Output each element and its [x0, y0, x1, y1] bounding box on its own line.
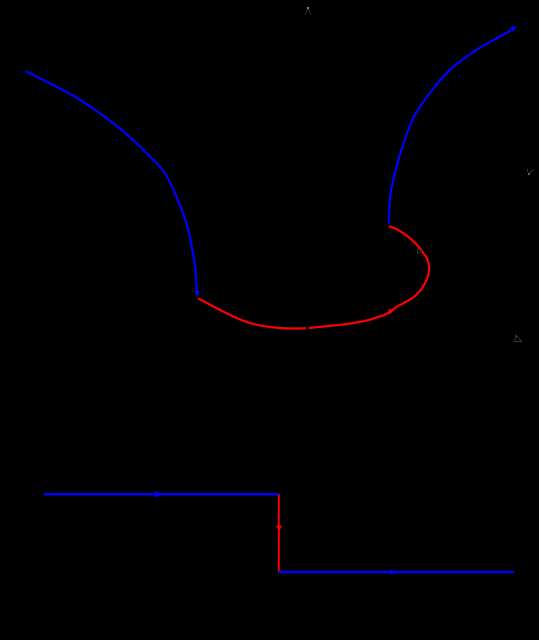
arrowhead blue right on upper level	[155, 491, 162, 498]
wire upper-left stable branch (blue curve)	[25, 71, 197, 292]
arrowhead blue up-right at end of right branch	[510, 26, 517, 32]
hidden arrow marker on fold branch (faint)	[418, 248, 422, 253]
hidden y-axis arrowhead (faint)	[305, 8, 311, 15]
wire lower plot upper level (blue line)	[44, 493, 280, 495]
hidden axis gap over red curve	[306, 321, 309, 334]
wire unstable branch (red curve)	[198, 226, 429, 328]
wire upper-right stable branch (blue curve)	[389, 30, 512, 225]
hidden x-axis arrow + label v (faint)	[527, 169, 533, 174]
arrowhead red down on jump	[276, 526, 282, 532]
arrowhead blue right on lower level	[390, 569, 396, 575]
wire jump segment (red vertical)	[278, 495, 280, 572]
arrowhead blue down at end of left branch	[195, 291, 200, 297]
wire lower plot lower level (blue line)	[278, 571, 514, 573]
arrowhead red on unstable branch	[388, 309, 394, 315]
hidden label triangle (faint delta)	[514, 336, 521, 342]
